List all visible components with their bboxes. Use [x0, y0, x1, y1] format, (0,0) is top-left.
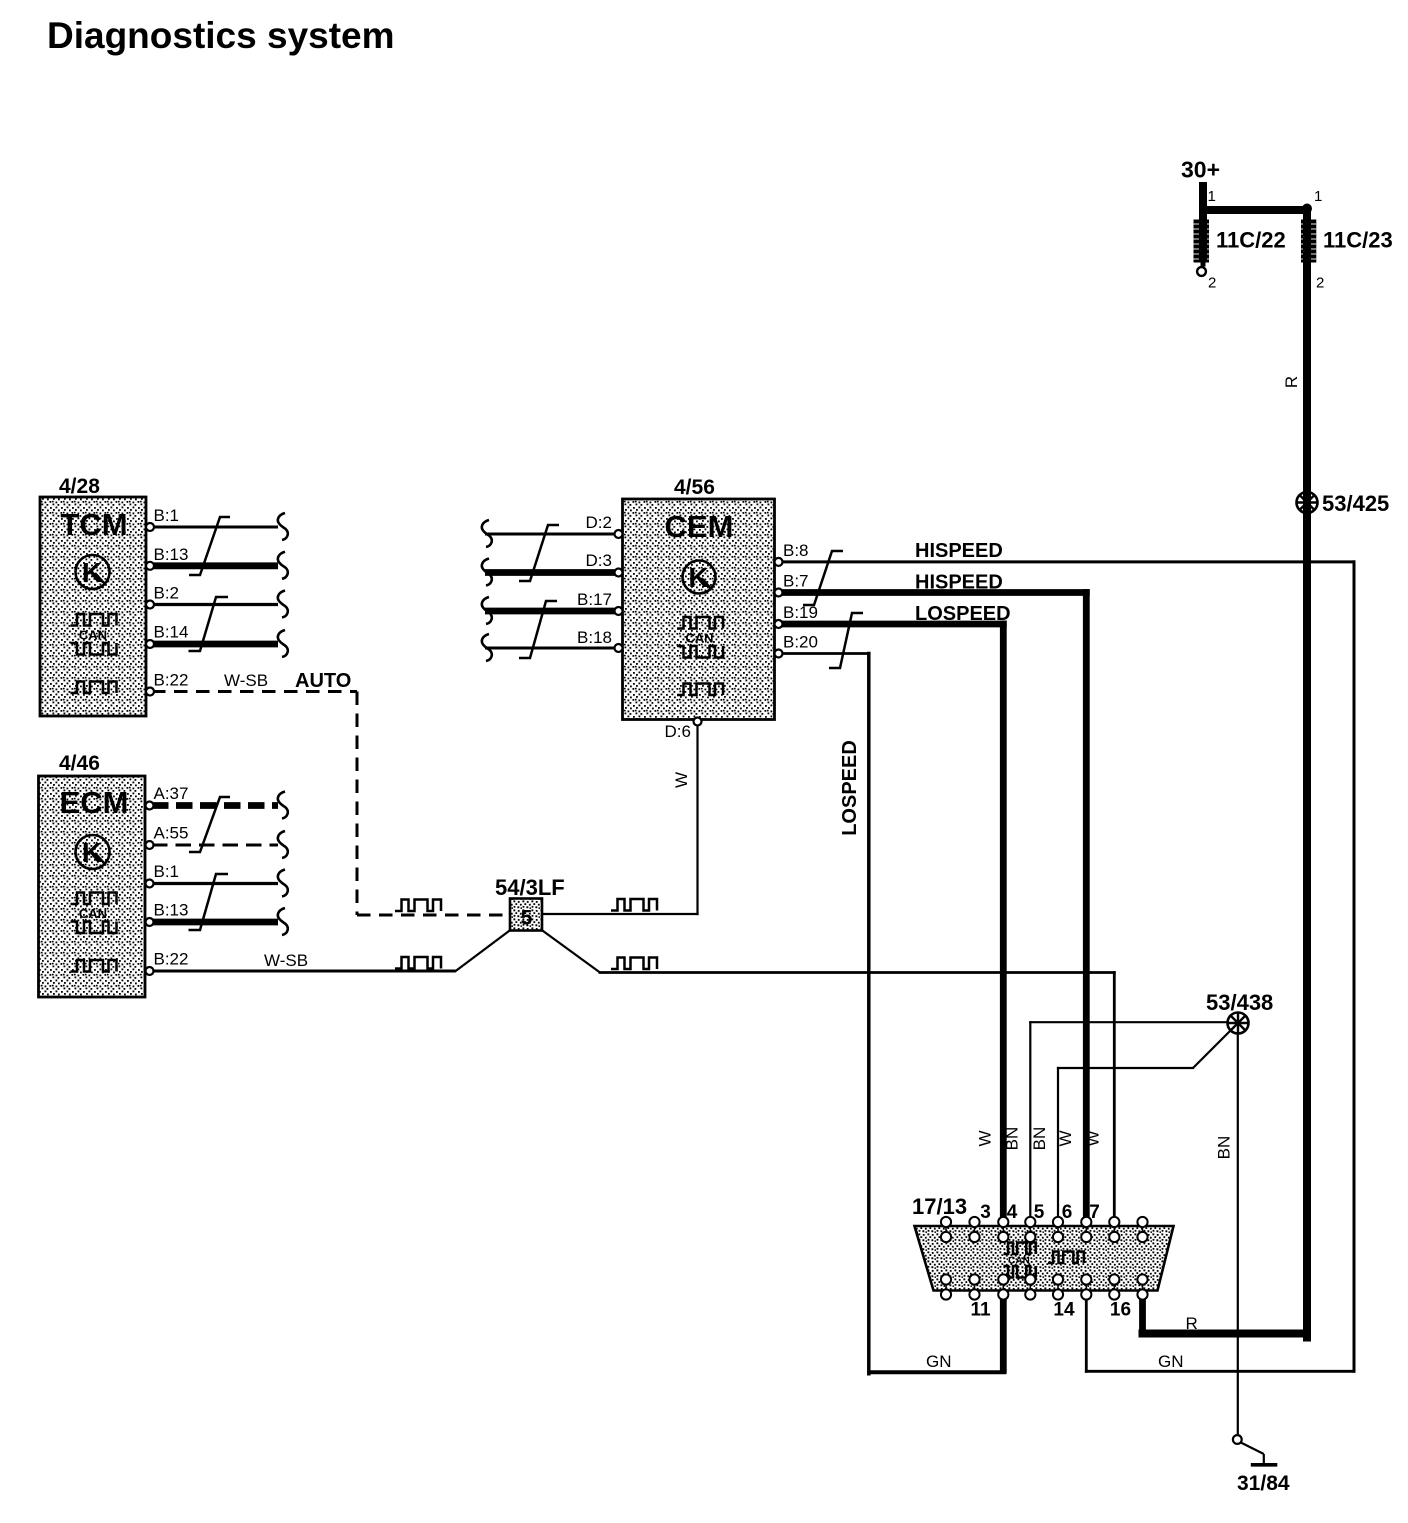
pin circle ECM B:1 — [146, 880, 154, 888]
pin circle TCM B:22 — [146, 688, 154, 696]
svg-text:1: 1 — [1208, 188, 1216, 205]
pin circle ECM B:13 — [146, 918, 154, 926]
twisted pair slash D:2/D:3 — [519, 525, 559, 581]
wire GN left horizontal — [869, 1370, 1006, 1374]
control module ECM box — [39, 776, 146, 997]
svg-text:R: R — [1282, 376, 1301, 388]
svg-text:B:22: B:22 — [154, 671, 189, 690]
svg-text:B:20: B:20 — [783, 633, 818, 652]
svg-text:CAN: CAN — [79, 628, 107, 643]
pin circle CEM B:7 — [775, 589, 783, 597]
wire ECM A:37 dashed — [152, 802, 278, 809]
pin circle CEM B:8 — [775, 558, 783, 566]
connector pins top row — [941, 1217, 1148, 1242]
pin circle TCM B:13 — [146, 562, 154, 570]
svg-text:B:1: B:1 — [154, 862, 180, 881]
wire R vertical from connector 11C/23 — [1303, 210, 1311, 1338]
pin circle CEM B:20 — [775, 650, 783, 658]
wire 30+ vertical feed — [1199, 182, 1207, 263]
svg-text:2: 2 — [1316, 275, 1324, 292]
ground contact circle — [1233, 1435, 1242, 1444]
K-line waveform symbol in 17/13 — [1048, 1252, 1084, 1264]
svg-text:CAN: CAN — [685, 631, 713, 646]
svg-text:HISPEED: HISPEED — [915, 540, 1003, 562]
svg-text:11: 11 — [970, 1300, 991, 1321]
wire feed horizontal — [1203, 206, 1307, 214]
connector pins bottom row — [941, 1274, 1148, 1299]
svg-text:B:1: B:1 — [154, 506, 180, 525]
svg-text:GN: GN — [926, 1352, 952, 1371]
svg-text:B:13: B:13 — [154, 545, 189, 564]
pin circle TCM B:2 — [146, 601, 154, 609]
svg-text:ECM: ECM — [60, 785, 129, 820]
svg-text:B:7: B:7 — [783, 572, 809, 591]
svg-text:5: 5 — [521, 907, 533, 930]
svg-text:BN: BN — [1030, 1127, 1049, 1151]
wire ECM B:1 — [152, 882, 278, 885]
svg-text:D:6: D:6 — [665, 722, 691, 741]
svg-text:3: 3 — [980, 1202, 991, 1223]
CAN symbol in ECM — [71, 893, 117, 934]
wire W to CEM D:6 vertical — [696, 725, 698, 914]
svg-text:B:2: B:2 — [154, 584, 180, 603]
svg-text:BN: BN — [1215, 1136, 1234, 1160]
wire W-SB right horizontal — [600, 971, 1114, 974]
wire CEM B:20 — [780, 652, 869, 655]
svg-text:LOSPEED: LOSPEED — [915, 603, 1011, 625]
wire CEM D:3 — [485, 569, 616, 576]
wire splice diagonal — [1193, 1030, 1231, 1068]
svg-text:AUTO: AUTO — [295, 670, 351, 692]
waveform symbol on W-SB wire — [395, 957, 441, 969]
wire TCM B:14 — [152, 641, 278, 648]
twisted pair slash B:8/B:7 — [803, 551, 843, 605]
svg-text:CEM: CEM — [665, 509, 734, 544]
K-line symbol in CEM — [683, 561, 716, 594]
break symbol D:2 — [482, 520, 492, 547]
pin circle ECM B:22 — [146, 967, 154, 975]
svg-text:11C/23: 11C/23 — [1323, 228, 1393, 253]
wire B:7 HISPEED vertical — [1083, 593, 1090, 1219]
svg-text:53/425: 53/425 — [1322, 491, 1389, 516]
svg-text:A:55: A:55 — [154, 824, 189, 843]
wire diagonal junction to W-SB right — [541, 930, 600, 973]
twisted pair slash B:17/B:18 — [519, 601, 557, 658]
control module CEM box — [623, 499, 775, 720]
wire ECM A:55 dashed — [152, 844, 278, 847]
break symbol B:2 — [278, 591, 288, 618]
twisted pair slash A:37/A:55 — [189, 797, 230, 852]
wire R bottom horizontal — [1139, 1330, 1312, 1338]
break symbol B:17 — [482, 597, 492, 624]
waveform symbol on W-SB right — [611, 958, 657, 970]
svg-text:2: 2 — [1208, 275, 1216, 292]
wire ECM B:22 W-SB — [152, 970, 456, 973]
ground diagonal — [1241, 1443, 1264, 1455]
K-line waveform symbol in ECM — [71, 960, 117, 972]
svg-text:W: W — [1084, 1130, 1103, 1146]
wire GN right horizontal — [1086, 1370, 1354, 1373]
svg-text:11C/22: 11C/22 — [1216, 228, 1286, 253]
break symbol ECM B:13 — [278, 908, 288, 935]
pin circle CEM B:19 — [775, 620, 783, 628]
CAN symbol in TCM — [71, 614, 117, 655]
wire CEM B:17 — [485, 608, 616, 615]
twisted pair slash B:2/B:14 — [189, 597, 229, 651]
svg-text:16: 16 — [1110, 1300, 1131, 1321]
svg-text:B:22: B:22 — [154, 950, 189, 969]
svg-text:17/13: 17/13 — [912, 1194, 967, 1219]
wire pin 14 to GN right — [1085, 1299, 1088, 1373]
svg-text:Diagnostics system: Diagnostics system — [47, 15, 395, 56]
pin circle CEM D:2 — [615, 530, 623, 538]
wire B:20 LOSPEED vertical — [867, 654, 871, 1374]
svg-text:W-SB: W-SB — [264, 951, 308, 970]
svg-text:GN: GN — [1158, 1352, 1184, 1371]
svg-text:B:18: B:18 — [577, 628, 612, 647]
pin 2 stub and circle (11C/22) — [1201, 263, 1206, 267]
svg-text:W: W — [1056, 1130, 1075, 1146]
twisted pair slash B:1/B:13 — [189, 517, 230, 575]
wire TCM B:2 — [152, 603, 278, 606]
pin circle TCM B:1 — [146, 523, 154, 531]
wire B:19 LOSPEED vertical — [1000, 624, 1007, 1218]
svg-text:B:13: B:13 — [154, 901, 189, 920]
ground bar — [1251, 1463, 1278, 1467]
pin circle CEM B:18 — [615, 644, 623, 652]
svg-text:R: R — [1186, 1314, 1198, 1333]
svg-text:K: K — [82, 837, 102, 868]
wire pin 16 R stub — [1139, 1299, 1146, 1338]
wire CEM B:18 — [485, 647, 616, 650]
wire W to CEM D:6 horizontal — [542, 913, 698, 915]
wire TCM B:1 — [152, 526, 278, 529]
svg-text:D:2: D:2 — [586, 513, 612, 532]
K-line symbol in ECM — [76, 835, 110, 869]
wire CEM B:8 HISPEED — [780, 560, 1354, 563]
break symbol A:37 — [278, 792, 288, 819]
control module TCM box — [40, 497, 146, 716]
K-line symbol in TCM — [76, 555, 110, 589]
svg-text:31/84: 31/84 — [1237, 1472, 1290, 1495]
wire CEM B:19 LOSPEED — [780, 621, 1003, 628]
svg-text:D:3: D:3 — [586, 551, 612, 570]
waveform symbol on W wire — [611, 899, 657, 911]
svg-text:4/28: 4/28 — [59, 475, 100, 498]
CAN symbol in 17/13 — [1004, 1243, 1036, 1278]
wire TCM B:13 — [152, 562, 278, 569]
wire TCM B:22 dashed W-SB AUTO — [152, 690, 357, 693]
pin circle CEM D:6 — [694, 718, 702, 726]
K-line waveform symbol in CEM — [677, 684, 723, 696]
connector 11C/22 — [1194, 220, 1210, 263]
connector 11C/23 — [1301, 220, 1316, 263]
junction box 5 — [510, 899, 542, 931]
pin circle TCM B:14 — [146, 640, 154, 648]
wire W-SB vertical to pin 7 — [1113, 973, 1116, 1219]
ground vertical — [1263, 1454, 1265, 1463]
pin circle ECM A:55 — [146, 841, 154, 849]
wire AUTO vertical dashed — [356, 692, 359, 916]
svg-text:A:37: A:37 — [154, 784, 189, 803]
svg-text:4/56: 4/56 — [674, 476, 715, 499]
wire splice to pin 6 vertical — [1057, 1068, 1059, 1218]
svg-text:54/3LF: 54/3LF — [495, 875, 565, 900]
svg-text:W-SB: W-SB — [224, 671, 268, 690]
svg-text:CAN: CAN — [79, 906, 107, 921]
svg-text:1: 1 — [1314, 188, 1322, 205]
wire ECM B:13 — [152, 919, 278, 926]
wire splice to pin 6 horizontal — [1058, 1067, 1193, 1069]
svg-text:HISPEED: HISPEED — [915, 572, 1003, 594]
break symbol B:18 — [482, 634, 492, 661]
wire AUTO horizontal dashed to junction 5 — [357, 914, 510, 917]
twisted pair slash B:19/B:20 — [829, 613, 863, 668]
splice symbol 53/438 — [1228, 1013, 1249, 1034]
wire CEM B:7 HISPEED — [780, 589, 1086, 596]
svg-text:BN: BN — [1003, 1127, 1022, 1151]
wire diagonal junction to W-SB left — [455, 930, 511, 972]
svg-text:K: K — [82, 557, 102, 588]
splice 53/425 — [1297, 492, 1318, 513]
pin circle ECM A:37 — [146, 802, 154, 810]
wire splice to pin 5 vertical — [1029, 1022, 1031, 1218]
junction dot — [1302, 204, 1312, 214]
break symbol ECM B:1 — [278, 870, 288, 897]
svg-text:W: W — [976, 1130, 995, 1146]
K-line waveform symbol in TCM — [71, 682, 117, 694]
wire splice to pin 5 horizontal — [1030, 1021, 1232, 1023]
pin circle CEM B:17 — [615, 607, 623, 615]
svg-text:W: W — [672, 772, 691, 788]
break symbol B:13 — [278, 552, 288, 579]
svg-text:B:19: B:19 — [783, 603, 818, 622]
break symbol D:3 — [482, 559, 492, 586]
svg-text:B:8: B:8 — [783, 541, 809, 560]
wire pin 11 to GN left — [1000, 1299, 1007, 1374]
CAN symbol in CEM — [677, 617, 723, 658]
break symbol A:55 — [278, 831, 288, 858]
twisted pair slash B:1/B:13 (ECM) — [189, 874, 229, 930]
wire CEM D:2 — [485, 533, 616, 536]
break symbol B:1 — [278, 513, 288, 540]
break symbol B:14 — [278, 630, 288, 657]
svg-text:TCM: TCM — [60, 507, 127, 542]
svg-text:B:17: B:17 — [577, 590, 612, 609]
svg-text:K: K — [688, 562, 708, 593]
wire BN from splice to ground — [1237, 1030, 1239, 1435]
svg-text:30+: 30+ — [1181, 157, 1220, 183]
svg-text:4/46: 4/46 — [59, 752, 100, 775]
svg-text:14: 14 — [1053, 1300, 1075, 1321]
svg-text:53/438: 53/438 — [1206, 990, 1273, 1015]
waveform symbol on AUTO wire — [395, 900, 441, 912]
svg-text:LOSPEED: LOSPEED — [839, 740, 861, 836]
wire B:8 HISPEED vertical — [1353, 562, 1356, 1371]
svg-text:B:14: B:14 — [154, 623, 189, 642]
connector 17/13 trapezoid — [915, 1226, 1174, 1291]
pin circle CEM D:3 — [615, 569, 623, 577]
